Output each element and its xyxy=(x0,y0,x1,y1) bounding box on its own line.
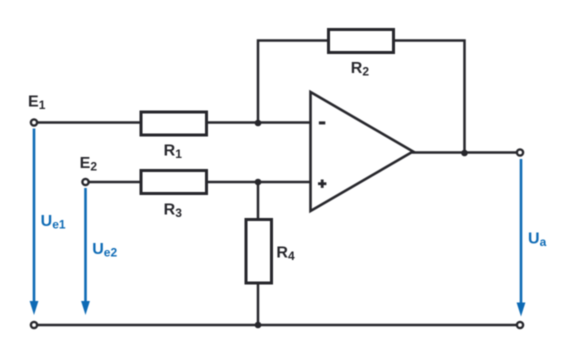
svg-text:R: R xyxy=(276,244,288,261)
svg-text:1: 1 xyxy=(39,98,46,112)
svg-text:E: E xyxy=(80,155,91,172)
svg-text:U: U xyxy=(41,213,53,230)
svg-text:U: U xyxy=(92,241,104,258)
svg-text:2: 2 xyxy=(362,65,369,79)
svg-text:e1: e1 xyxy=(52,218,66,232)
svg-text:1: 1 xyxy=(175,147,182,161)
svg-text:3: 3 xyxy=(175,206,182,220)
svg-text:R: R xyxy=(164,143,176,160)
svg-text:4: 4 xyxy=(288,249,295,263)
svg-text:a: a xyxy=(540,235,547,249)
svg-text:U: U xyxy=(528,231,540,248)
svg-text:R: R xyxy=(351,60,363,77)
svg-text:2: 2 xyxy=(90,160,97,174)
svg-text:E: E xyxy=(28,94,39,111)
svg-text:R: R xyxy=(164,202,176,219)
svg-text:e2: e2 xyxy=(104,246,118,260)
